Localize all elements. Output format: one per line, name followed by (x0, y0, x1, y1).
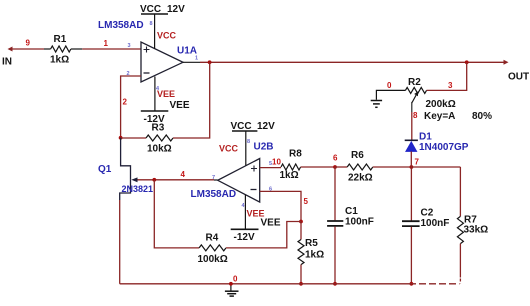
VCC supply U1A (140, 4, 185, 49)
svg-text:D1: D1 (419, 132, 432, 143)
svg-text:7: 7 (212, 175, 215, 181)
svg-text:VCC: VCC (231, 121, 252, 132)
svg-text:1kΩ: 1kΩ (50, 55, 69, 66)
svg-text:U2B: U2B (254, 142, 274, 153)
junction C1-ground rail (333, 282, 337, 286)
svg-text:R1: R1 (54, 34, 67, 45)
wire R2 wiper to D1 (411, 102, 413, 140)
op-amp U2B (191, 142, 274, 203)
svg-text:200kΩ: 200kΩ (426, 99, 456, 110)
svg-text:R8: R8 (289, 149, 302, 160)
resistor R6 (335, 150, 373, 184)
svg-text:IN: IN (2, 57, 12, 68)
svg-text:C1: C1 (345, 206, 358, 217)
node 0 bottom (229, 275, 238, 286)
VEE supply U2B (231, 195, 281, 243)
VEE pin label U2B (247, 209, 265, 219)
svg-text:1kΩ: 1kΩ (305, 250, 324, 261)
diode D1 (405, 132, 469, 168)
resistor R5 (298, 222, 324, 284)
svg-text:1: 1 (195, 56, 198, 62)
wire R2 left to ground (376, 90, 405, 99)
resistor R7 (457, 167, 488, 284)
label OUT (508, 72, 529, 83)
wire U1A inverting input (121, 76, 141, 138)
svg-text:-12V: -12V (234, 232, 255, 243)
wire node4 to R4 (154, 180, 199, 248)
wire U2B inverting input to node 5 (260, 191, 301, 221)
wire U1A output (183, 60, 509, 65)
svg-text:VCC: VCC (219, 144, 239, 154)
pin 7 (212, 175, 215, 181)
svg-text:8: 8 (247, 139, 250, 145)
svg-text:LM358AD: LM358AD (98, 20, 144, 31)
svg-text:12V: 12V (167, 4, 185, 15)
node 3 (448, 81, 453, 90)
svg-text:OUT: OUT (508, 72, 529, 83)
pin 2 (127, 71, 130, 77)
wire R3 to output (173, 62, 210, 138)
node 6 (333, 154, 338, 169)
svg-text:10kΩ: 10kΩ (147, 144, 172, 155)
svg-text:2N3821: 2N3821 (122, 184, 154, 194)
node 0 R2 (387, 81, 392, 90)
capacitor C2 (402, 167, 449, 284)
svg-text:100nF: 100nF (345, 217, 374, 228)
junction C2-ground rail (410, 282, 414, 286)
svg-text:R4: R4 (206, 233, 219, 244)
node 7 (410, 158, 420, 169)
svg-text:1kΩ: 1kΩ (280, 170, 299, 181)
junction output-R3 (208, 60, 212, 64)
svg-text:VEE: VEE (261, 218, 281, 229)
resistor R8 (260, 149, 303, 182)
svg-text:0: 0 (233, 275, 238, 284)
node 4 (181, 170, 186, 179)
svg-text:R5: R5 (305, 238, 318, 249)
wire R6 to node 7 (373, 166, 412, 168)
svg-text:Q1: Q1 (98, 164, 112, 175)
pin 5 (269, 161, 272, 167)
node 10 (272, 158, 281, 167)
svg-text:VEE: VEE (170, 100, 190, 111)
svg-text:12V: 12V (257, 121, 275, 132)
wire R4 to node 5 (226, 222, 301, 248)
junction node5-R4-R5 (299, 220, 303, 224)
pin 3 (128, 43, 131, 49)
svg-text:10: 10 (272, 158, 281, 167)
node 2 (123, 98, 128, 107)
svg-text:VEE: VEE (247, 209, 265, 219)
VCC pin label U1A (157, 31, 177, 41)
wire output to R2 (427, 62, 467, 90)
svg-text:22kΩ: 22kΩ (348, 173, 373, 184)
potentiometer R2 (405, 77, 492, 122)
svg-text:2: 2 (123, 98, 128, 107)
svg-text:R2: R2 (408, 77, 421, 88)
VCC supply U2B (231, 121, 276, 166)
junction node2-R3 (119, 136, 123, 140)
svg-text:7: 7 (415, 158, 420, 167)
wire R1 to U1A + input (82, 48, 141, 50)
resistor R1 (44, 34, 82, 66)
svg-text:3: 3 (128, 43, 131, 49)
node 1 (104, 39, 109, 48)
svg-text:LM358AD: LM358AD (191, 189, 237, 200)
capacitor C1 (327, 167, 374, 284)
svg-text:1: 1 (104, 39, 109, 48)
pin 1 (195, 56, 198, 62)
wire Q1 gate to U2B output (138, 179, 218, 181)
label IN (2, 57, 12, 68)
ground R2 (371, 101, 382, 108)
svg-text:5: 5 (304, 197, 309, 206)
pin 4 (156, 86, 160, 92)
svg-text:0: 0 (387, 81, 392, 90)
svg-text:33kΩ: 33kΩ (464, 225, 489, 236)
svg-text:C2: C2 (421, 208, 434, 219)
pin 6 (269, 187, 272, 193)
svg-text:VEE: VEE (157, 89, 175, 99)
wire Q1 source to ground rail (119, 200, 121, 284)
resistor R3 (121, 123, 173, 155)
svg-text:100nF: 100nF (421, 218, 450, 229)
svg-text:6: 6 (333, 154, 338, 163)
VEE supply U1A (141, 77, 190, 126)
svg-text:R6: R6 (351, 150, 364, 161)
svg-text:4: 4 (181, 170, 186, 179)
junction output-R2 (465, 60, 469, 64)
svg-text:100kΩ: 100kΩ (198, 254, 228, 265)
junction node4-R4 (152, 178, 156, 182)
node 5 (304, 197, 309, 206)
svg-text:8: 8 (150, 21, 153, 27)
node 8 (413, 111, 418, 120)
transistor Q1 (98, 138, 153, 200)
svg-text:1N4007GP: 1N4007GP (419, 142, 469, 153)
resistor R4 (198, 233, 228, 266)
junction R5-ground rail (299, 282, 303, 286)
pin 4 U2B (242, 203, 246, 209)
svg-text:80%: 80% (472, 111, 492, 122)
wire R8 to node 6 (301, 166, 335, 168)
svg-text:VCC: VCC (157, 31, 177, 41)
svg-text:R3: R3 (152, 123, 165, 134)
wire ground rail (120, 283, 460, 285)
op-amp U1A (98, 20, 197, 82)
wire IN input (8, 47, 45, 52)
svg-text:Key=A: Key=A (424, 111, 455, 122)
ground bottom (225, 284, 239, 296)
VCC pin label U2B (219, 144, 239, 154)
svg-text:VCC: VCC (140, 4, 161, 15)
VEE pin label U1A (157, 89, 175, 99)
node 9 (26, 39, 31, 48)
pin 8 (150, 21, 153, 27)
wire node 7 to R7 (411, 166, 460, 168)
pin 8 U2B (247, 139, 250, 145)
svg-text:U1A: U1A (177, 46, 197, 57)
svg-text:8: 8 (413, 111, 418, 120)
svg-text:9: 9 (26, 39, 31, 48)
svg-text:3: 3 (448, 81, 453, 90)
